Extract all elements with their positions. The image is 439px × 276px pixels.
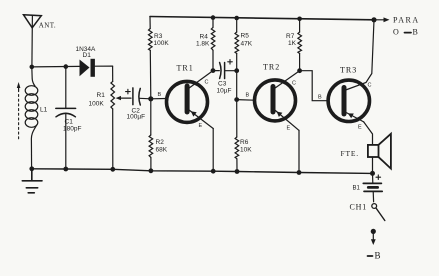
node R6 at rail bbox=[235, 169, 240, 174]
potentiometer R1 bbox=[111, 66, 115, 169]
svg-text:180pF: 180pF bbox=[63, 126, 81, 133]
svg-text:R6: R6 bbox=[240, 139, 249, 146]
tuning arrow (dashed) for L1 core bbox=[17, 82, 21, 141]
resistor R3 bbox=[149, 17, 153, 99]
plus sign of C3 bbox=[228, 60, 233, 65]
battery B1 bbox=[363, 173, 382, 201]
svg-text:1.8K: 1.8K bbox=[196, 41, 210, 48]
svg-text:R4: R4 bbox=[200, 34, 209, 41]
node R7/TR2 collector bbox=[297, 68, 302, 73]
switch CH1 bbox=[372, 204, 385, 221]
node below switch bbox=[371, 229, 376, 234]
node TR2 emitter at rail bbox=[297, 170, 302, 175]
svg-text:E: E bbox=[358, 125, 362, 131]
svg-text:TR1: TR1 bbox=[177, 64, 194, 73]
resistor R2 bbox=[149, 99, 153, 171]
ground bbox=[22, 169, 42, 193]
resistor R5 bbox=[235, 18, 239, 71]
wire bottom rail bbox=[32, 169, 373, 174]
svg-text:R2: R2 bbox=[156, 139, 165, 146]
svg-text:CH1: CH1 bbox=[350, 203, 368, 212]
svg-text:ANT.: ANT. bbox=[39, 22, 56, 30]
svg-text:R7: R7 bbox=[286, 33, 295, 40]
capacitor C1 bbox=[56, 67, 76, 169]
svg-text:100K: 100K bbox=[154, 40, 170, 47]
svg-text:100K: 100K bbox=[89, 101, 105, 108]
inductor L1 bbox=[25, 67, 38, 169]
svg-text:FTE.: FTE. bbox=[341, 149, 359, 158]
svg-text:B: B bbox=[158, 92, 162, 98]
svg-text:47K: 47K bbox=[241, 41, 253, 48]
node battery at rail bbox=[370, 171, 375, 176]
svg-text:100µF: 100µF bbox=[127, 114, 146, 121]
svg-text:C: C bbox=[205, 80, 209, 86]
wire base junction to TR1 bbox=[151, 98, 166, 100]
antenna ANT bbox=[24, 15, 42, 67]
node TR1 emitter at rail bbox=[211, 169, 216, 174]
resistor R7 bbox=[298, 19, 302, 71]
svg-text:1K: 1K bbox=[288, 40, 297, 47]
svg-text:B: B bbox=[246, 93, 250, 99]
svg-text:C: C bbox=[292, 81, 296, 87]
node R4/C3/TR1 collector bbox=[211, 68, 216, 73]
svg-text:B: B bbox=[413, 27, 418, 36]
node R1 at rail bbox=[110, 167, 115, 172]
node top right (TR3 collector / arrow) bbox=[371, 17, 376, 22]
wire antenna junction to diode bbox=[32, 65, 80, 68]
node TR2 base junction bbox=[234, 97, 239, 102]
capacitor C2 bbox=[133, 88, 151, 105]
node L1 at rail bbox=[29, 166, 34, 171]
svg-text:B1: B1 bbox=[353, 186, 361, 192]
resistor R4 bbox=[211, 18, 215, 71]
diode D1 1N34A bbox=[80, 59, 113, 77]
plus sign of C2 bbox=[126, 89, 131, 94]
node C1 top junction bbox=[64, 64, 69, 69]
transistor TR3 bbox=[328, 20, 374, 145]
wiper arrow of R1 bbox=[116, 96, 131, 100]
node C3/R5 junction bbox=[234, 68, 239, 73]
svg-text:L1: L1 bbox=[40, 107, 48, 114]
node R4 top bbox=[211, 15, 216, 20]
capacitor C3 bbox=[213, 63, 237, 79]
node R5 top bbox=[234, 16, 239, 21]
svg-text:C3: C3 bbox=[218, 81, 227, 88]
node TR1 base junction bbox=[148, 96, 153, 101]
wire TR2 collector to TR3 base bbox=[300, 71, 328, 101]
svg-text:D1: D1 bbox=[83, 52, 92, 59]
label O -B bbox=[393, 27, 418, 36]
svg-text:C: C bbox=[368, 83, 372, 89]
node R7 top bbox=[297, 17, 302, 22]
plus sign battery bbox=[376, 175, 381, 180]
svg-text:O: O bbox=[393, 27, 399, 36]
svg-text:TR3: TR3 bbox=[340, 66, 357, 75]
transistor TR2 bbox=[255, 71, 300, 173]
svg-text:68K: 68K bbox=[156, 147, 168, 154]
svg-text:C1: C1 bbox=[65, 119, 74, 126]
svg-text:PARA: PARA bbox=[393, 16, 420, 25]
svg-text:E: E bbox=[199, 123, 203, 129]
node C1 at rail bbox=[63, 167, 68, 172]
transistor TR1 bbox=[167, 71, 214, 172]
label -B bbox=[368, 251, 381, 261]
svg-text:B: B bbox=[318, 95, 322, 101]
svg-text:E: E bbox=[287, 126, 291, 132]
wire TR2 base junction to TR2 bbox=[237, 99, 254, 102]
speaker FTE bbox=[368, 134, 391, 174]
arrow to -B bbox=[371, 233, 376, 245]
svg-text:B: B bbox=[375, 251, 381, 261]
node R2 at rail bbox=[149, 168, 154, 173]
svg-text:TR2: TR2 bbox=[263, 63, 280, 72]
wire R5 junction down to TR2 base node bbox=[236, 71, 238, 100]
svg-text:10K: 10K bbox=[240, 147, 252, 154]
svg-text:R3: R3 bbox=[154, 33, 163, 40]
resistor R6 bbox=[235, 100, 239, 172]
svg-text:R5: R5 bbox=[241, 33, 250, 40]
svg-text:10µF: 10µF bbox=[217, 88, 232, 95]
arrow to PARA bbox=[374, 17, 390, 22]
wire top rail bbox=[150, 17, 374, 20]
svg-text:R1: R1 bbox=[97, 92, 106, 99]
node antenna/L1 junction bbox=[30, 65, 35, 70]
